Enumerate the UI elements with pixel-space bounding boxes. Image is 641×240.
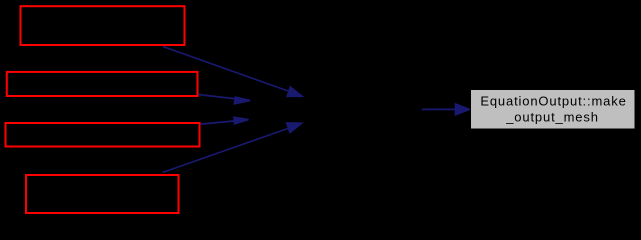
svg-text:EquationOutput::make: EquationOutput::make — [480, 94, 626, 109]
svg-text:_output_mesh: _output_mesh — [505, 109, 599, 124]
